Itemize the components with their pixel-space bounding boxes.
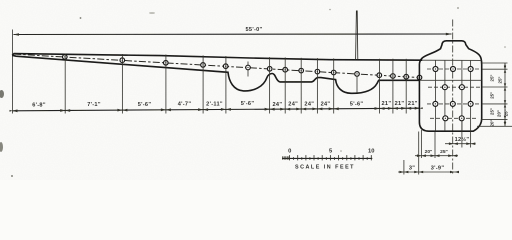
wire: bolt column line b xyxy=(444,60,446,131)
wire ext 24" b xyxy=(300,58,302,114)
centre-section butt plate outline xyxy=(419,41,481,131)
station circle 1 xyxy=(63,55,68,60)
scan artifacts xyxy=(0,90,4,98)
wire: bottom extension line xyxy=(477,125,512,127)
station circles along spar xyxy=(63,55,422,80)
wire: row3 extension right xyxy=(482,103,508,105)
bolt r3c2 xyxy=(450,101,455,106)
station circle 7 xyxy=(267,67,272,72)
wire: ext line x=418.7 xyxy=(418,132,420,175)
station circle 12 xyxy=(355,72,360,77)
wire: 3" / 3'-9" dimension line xyxy=(398,171,459,173)
wire ext 21" b xyxy=(405,59,407,114)
wire ext 21" c xyxy=(419,81,421,114)
wire: ext line x=461.9 xyxy=(461,121,463,148)
wire: top extension line y=63 xyxy=(481,62,508,64)
station circle 16 xyxy=(417,75,422,80)
wire: stub below circle at 248 xyxy=(247,70,249,77)
wing trailing edge with scallop cutouts (bottom) xyxy=(12,55,419,93)
wire ext 24" a xyxy=(284,57,286,113)
wire: ext line x=435 xyxy=(434,132,436,159)
station circle 8 xyxy=(283,67,288,72)
wire ext 2'-11" right xyxy=(225,56,227,113)
bolt circles in plate xyxy=(433,67,473,121)
wire ext 24" d xyxy=(333,58,335,113)
bolt r1c3 xyxy=(468,67,473,72)
chain arrow ticks xyxy=(504,63,506,126)
paper grain overlay xyxy=(0,0,512,180)
wire: row2 extension right xyxy=(482,86,508,88)
bolt r4c1 xyxy=(443,116,448,121)
wire ext 4'-7" right xyxy=(202,55,204,113)
station circle 13 xyxy=(377,73,382,78)
node: left arrowhead of span dimension xyxy=(13,33,19,36)
wire: ext line x=421.4 xyxy=(420,130,422,158)
wire: wing bottom edge continued through plate xyxy=(420,79,482,81)
station circle 15 xyxy=(404,74,409,79)
station circle 9 xyxy=(299,68,304,73)
bolt r3c1 xyxy=(433,101,438,106)
bolt r2c2 xyxy=(459,85,464,90)
station circle 14 xyxy=(391,74,396,79)
wire ext 5'-6" (2nd) right xyxy=(269,57,271,113)
station circle 4 xyxy=(201,63,206,68)
wire ext 7'-1" right xyxy=(121,54,123,114)
wire: bolt column line a xyxy=(435,60,437,131)
spar centerline (dashed) along wing xyxy=(14,54,421,78)
wire ext 21" a xyxy=(392,59,394,114)
station circle 2 xyxy=(120,58,125,63)
center dots of bolts xyxy=(435,68,471,119)
wire ext 5'-6" right xyxy=(165,55,167,114)
wire ext 6'-8" right xyxy=(64,54,66,114)
wire: bolt row line 2 (dashed) xyxy=(428,86,481,88)
arrow ticks on bottom dimension chain xyxy=(10,107,423,112)
station circle 11 xyxy=(331,70,336,75)
bolt r2c1 xyxy=(442,85,447,90)
node: right arrowhead of span dimension xyxy=(446,33,452,36)
wire: overall span dimension line 55'-0" xyxy=(14,33,452,36)
bolt r4c2 xyxy=(459,116,464,121)
wire: bolt row line 1 (dashed) xyxy=(427,68,481,70)
wire: bolt row line 3 (dashed) xyxy=(427,103,481,105)
wire: wing top edge continued through plate xyxy=(422,59,481,61)
wire: 12½" dimension line xyxy=(445,143,476,145)
station circle 10 xyxy=(315,69,320,74)
wire: stub below circle at 357 to scallop bottom xyxy=(356,76,358,92)
bolt r3c3 xyxy=(468,101,473,106)
wire: 20"/25" dimension line xyxy=(415,155,458,157)
wire: bolt column line d xyxy=(470,60,472,131)
wire: left extension line at wing tip xyxy=(12,30,14,114)
bolt r1c1 xyxy=(433,67,438,72)
wire: row4 extension right xyxy=(481,118,508,120)
wire: bolt row line 4 (dashed) xyxy=(430,117,478,119)
wire: ext line x=470.6 xyxy=(470,132,472,148)
wire ext 5'-6" (3rd) right xyxy=(379,59,381,114)
center dots of station circles xyxy=(64,56,420,78)
wing leading edge (top) xyxy=(12,54,422,61)
mast above wing at station 5'-6" bay xyxy=(356,11,358,60)
wire: ext line x=403.9 xyxy=(403,160,405,175)
scale bar ticks xyxy=(283,155,372,160)
station circle 6 xyxy=(246,65,251,70)
station circle 5 xyxy=(223,64,228,69)
wire: chain line xyxy=(504,63,506,126)
station circle 3 xyxy=(164,61,169,66)
wire ext 24" c xyxy=(316,58,318,113)
wire: stub above circle at 248 xyxy=(247,62,249,66)
wire: bottom dimension chain line xyxy=(13,108,420,111)
bolt r1c2 xyxy=(451,67,456,72)
wire: bolt column line c xyxy=(461,60,463,131)
wire: scale bar baseline xyxy=(282,157,372,159)
wire: row1 extension right xyxy=(482,68,508,70)
wire: dome vertical centreline (dash-dot) xyxy=(452,20,454,175)
